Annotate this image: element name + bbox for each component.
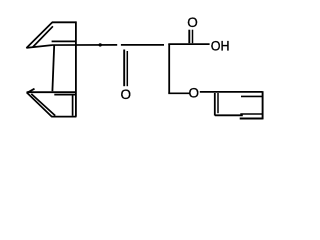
ring A bottom edge bond <box>26 45 52 48</box>
phenyl bottom edge bond <box>215 114 243 116</box>
chain bond to alpha carbon <box>121 44 164 46</box>
phenyl bottom lower-right bond <box>240 118 263 120</box>
bond CH2 to ether O <box>168 92 189 94</box>
svg-text:OH: OH <box>211 38 230 53</box>
ring C outer diagonal bond <box>27 92 52 116</box>
ring A top edge bond <box>52 21 76 23</box>
shared right vertical bond <box>75 21 77 116</box>
ring B left edge bond <box>52 45 54 91</box>
phenyl left double bond line 1 <box>214 93 216 116</box>
ketone C=O double bond line 1 <box>123 50 125 87</box>
svg-text:O: O <box>187 15 198 30</box>
phenyl right vertical bond <box>262 91 264 119</box>
ketone C=O double bond line 2 <box>126 51 128 86</box>
ring A outer diagonal bond <box>26 22 52 48</box>
bond ether O to phenyl / phenyl top edge <box>200 91 263 93</box>
bond alpha C to carboxyl OH <box>168 43 209 45</box>
phenyl bottom upper-right bond <box>240 113 262 115</box>
ring A inner horizontal double-bond line <box>52 40 76 42</box>
phenyl left double bond line 2 <box>217 93 219 113</box>
chain bond from ring to carbonyl <box>52 44 117 46</box>
carboxyl C=O double bond line 2 <box>192 30 194 44</box>
ring C inner diagonal double-bond line <box>31 94 55 116</box>
ring C inner right double-bond line <box>72 95 74 116</box>
svg-text:O: O <box>189 85 200 100</box>
carboxyl C=O double bond line 1 <box>188 30 190 44</box>
alpha carbon vertical bond <box>168 44 170 93</box>
ring B bottom edge bond <box>27 91 76 93</box>
ring A inner double-bond line <box>33 26 53 47</box>
ring C bottom edge bond <box>51 116 76 118</box>
ring C inner top double-bond line <box>54 94 76 96</box>
svg-text:O: O <box>121 87 132 102</box>
ring C corner tick bond <box>28 89 34 93</box>
phenyl inner top-right double-bond line <box>241 95 262 97</box>
atom junction dot <box>99 43 102 46</box>
